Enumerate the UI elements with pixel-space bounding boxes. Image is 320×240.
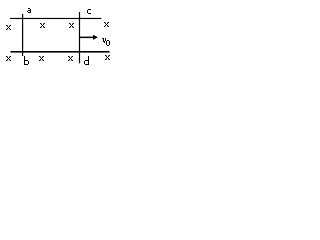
- field cross 7 (B into page): [68, 56, 73, 61]
- velocity arrow shaft: [80, 37, 94, 39]
- physics figure: two horizontal rails with conducting rods ab and cd in a magnetic field (x marks = B into page); rod cd moves right with velocity v0: [0, 0, 124, 73]
- node label d: [84, 56, 89, 65]
- field cross 5 (B into page): [6, 56, 11, 61]
- field cross 2 (B into page): [40, 23, 45, 28]
- top rail wire: [10, 18, 101, 19]
- field cross 1 (B into page): [6, 25, 11, 30]
- field cross 6 (B into page): [39, 56, 44, 61]
- field cross 4 (B into page): [104, 22, 109, 27]
- field cross 8 (B into page): [105, 55, 110, 60]
- node label a: [27, 8, 31, 13]
- field cross 3 (B into page): [69, 23, 74, 28]
- velocity label v (italic): [102, 38, 106, 43]
- rod cd (right conductor): [79, 12, 80, 63]
- velocity arrowhead: [93, 35, 98, 40]
- rod ab (left conductor): [22, 14, 23, 56]
- node label b: [24, 56, 29, 65]
- bottom rail wire: [11, 51, 110, 53]
- node label c: [87, 9, 91, 14]
- velocity label subscript 0: [106, 40, 110, 46]
